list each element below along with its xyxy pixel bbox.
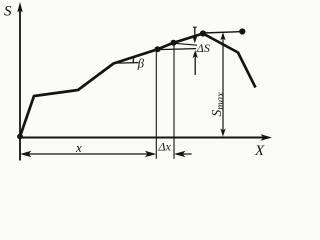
svg-text:Smax: Smax bbox=[209, 92, 226, 117]
svg-text:Δx: Δx bbox=[158, 140, 172, 154]
node dot 1 on curve bbox=[155, 46, 161, 52]
S axis (vertical) with arrowhead bbox=[17, 2, 23, 161]
peak node dot bbox=[200, 30, 206, 36]
delta-S lower arrow (pointing up at line) bbox=[193, 50, 198, 75]
svg-text:x: x bbox=[75, 140, 82, 155]
svg-text:ΔS: ΔS bbox=[196, 41, 210, 55]
S max dimension line with arrows both ends bbox=[220, 32, 225, 136]
S axis tail below x axis bbox=[19, 138, 21, 161]
horizontal line from dot 1 bbox=[158, 49, 196, 50]
horizontal line from peak to right dot bbox=[203, 32, 240, 33]
x dimension line with outward arrows bbox=[20, 151, 156, 157]
vertical extension line from dot 2 bbox=[173, 44, 175, 159]
X axis (horizontal) with arrowhead bbox=[19, 134, 272, 141]
right end node dot bbox=[239, 28, 245, 34]
node dot 2 on curve bbox=[171, 40, 177, 46]
beta angle reference horizontal line bbox=[114, 62, 139, 65]
origin node dot bbox=[17, 134, 23, 140]
curve S(x) polyline bbox=[20, 34, 256, 137]
delta-S upper arrow (pointing down at curve) bbox=[192, 27, 197, 43]
svg-text:X: X bbox=[254, 143, 265, 159]
vertical extension line from dot 1 bbox=[155, 50, 157, 159]
delta-x right outside arrow (pointing left at second line) bbox=[174, 151, 192, 157]
horizontal line from dot 2 bbox=[175, 43, 198, 45]
beta angle tick bbox=[132, 57, 134, 63]
svg-text:β: β bbox=[137, 57, 145, 71]
svg-text:S: S bbox=[4, 4, 12, 20]
S max label (rotated) bbox=[209, 92, 226, 117]
